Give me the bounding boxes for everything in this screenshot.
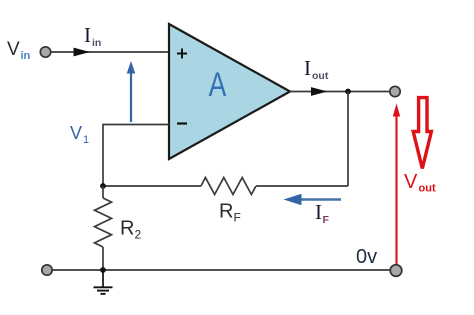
svg-text:2: 2	[135, 228, 142, 242]
terminal 0v left	[42, 265, 52, 275]
label RF	[219, 201, 241, 225]
pin + (non-inverting input)	[177, 49, 187, 59]
svg-text:R: R	[120, 218, 134, 240]
svg-text:F: F	[323, 214, 330, 226]
terminal Vin	[40, 47, 50, 57]
wire R2 top	[102, 186, 104, 198]
wire feedback vertical	[347, 92, 349, 187]
ground	[94, 270, 113, 294]
resistor RF	[201, 178, 256, 195]
wire input (+) from Vin terminal to op-amp	[50, 51, 169, 53]
op-amp A	[169, 24, 290, 159]
svg-text:1: 1	[83, 134, 89, 146]
svg-text:V: V	[404, 171, 418, 193]
wire inverting input	[103, 125, 169, 187]
terminal 0v right	[390, 265, 402, 277]
label Iin	[84, 23, 101, 49]
wire feedback to RF	[256, 185, 348, 187]
wire RF to node V1	[103, 185, 201, 187]
svg-text:V: V	[7, 39, 20, 60]
svg-text:F: F	[234, 211, 241, 225]
svg-text:R: R	[219, 201, 233, 223]
svg-text:in: in	[92, 37, 101, 49]
pin - (inverting input)	[177, 122, 187, 124]
current arrow Iout	[311, 87, 328, 96]
label IF	[315, 200, 330, 226]
node output junction	[345, 89, 351, 95]
svg-text:out: out	[419, 183, 436, 195]
arrow Vout (thin red up)	[393, 104, 400, 265]
svg-text:0v: 0v	[356, 246, 377, 268]
svg-text:out: out	[312, 70, 329, 82]
label Vin	[7, 39, 31, 62]
arrow V1 (blue up)	[127, 61, 136, 122]
label R2	[120, 218, 142, 242]
svg-text:in: in	[21, 50, 31, 62]
current arrow Iin	[74, 48, 91, 57]
current arrow IF (blue left)	[284, 194, 342, 206]
wire 0v rail	[47, 269, 396, 271]
resistor R2	[95, 198, 112, 247]
svg-text:I: I	[84, 23, 91, 47]
svg-text:I: I	[304, 56, 311, 80]
wire R2 bottom	[102, 247, 104, 270]
svg-text:I: I	[315, 200, 322, 224]
node feedback junction	[100, 183, 106, 189]
label Vout	[404, 171, 436, 195]
terminal Vout	[390, 86, 400, 96]
arrow Vout polarity (red block down)	[413, 98, 431, 169]
svg-text:A: A	[209, 66, 227, 104]
label Iout	[304, 56, 329, 82]
node R2 ground junction	[100, 267, 106, 273]
svg-text:V: V	[70, 123, 82, 143]
wire output	[290, 91, 395, 93]
label V1	[70, 123, 89, 146]
